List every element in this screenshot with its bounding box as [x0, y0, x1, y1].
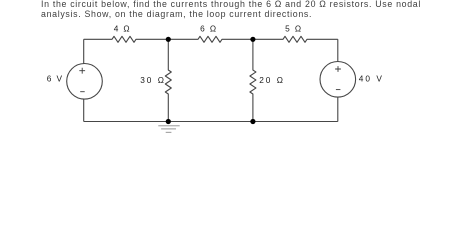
svg-text:6 V: 6 V [47, 74, 64, 84]
svg-text:5 Ω: 5 Ω [285, 23, 302, 33]
svg-text:20 Ω: 20 Ω [259, 75, 285, 85]
svg-text:30 Ω: 30 Ω [140, 75, 166, 85]
svg-text:6 Ω: 6 Ω [200, 23, 217, 33]
svg-text:40 V: 40 V [359, 74, 384, 84]
svg-text:4 Ω: 4 Ω [114, 23, 131, 33]
